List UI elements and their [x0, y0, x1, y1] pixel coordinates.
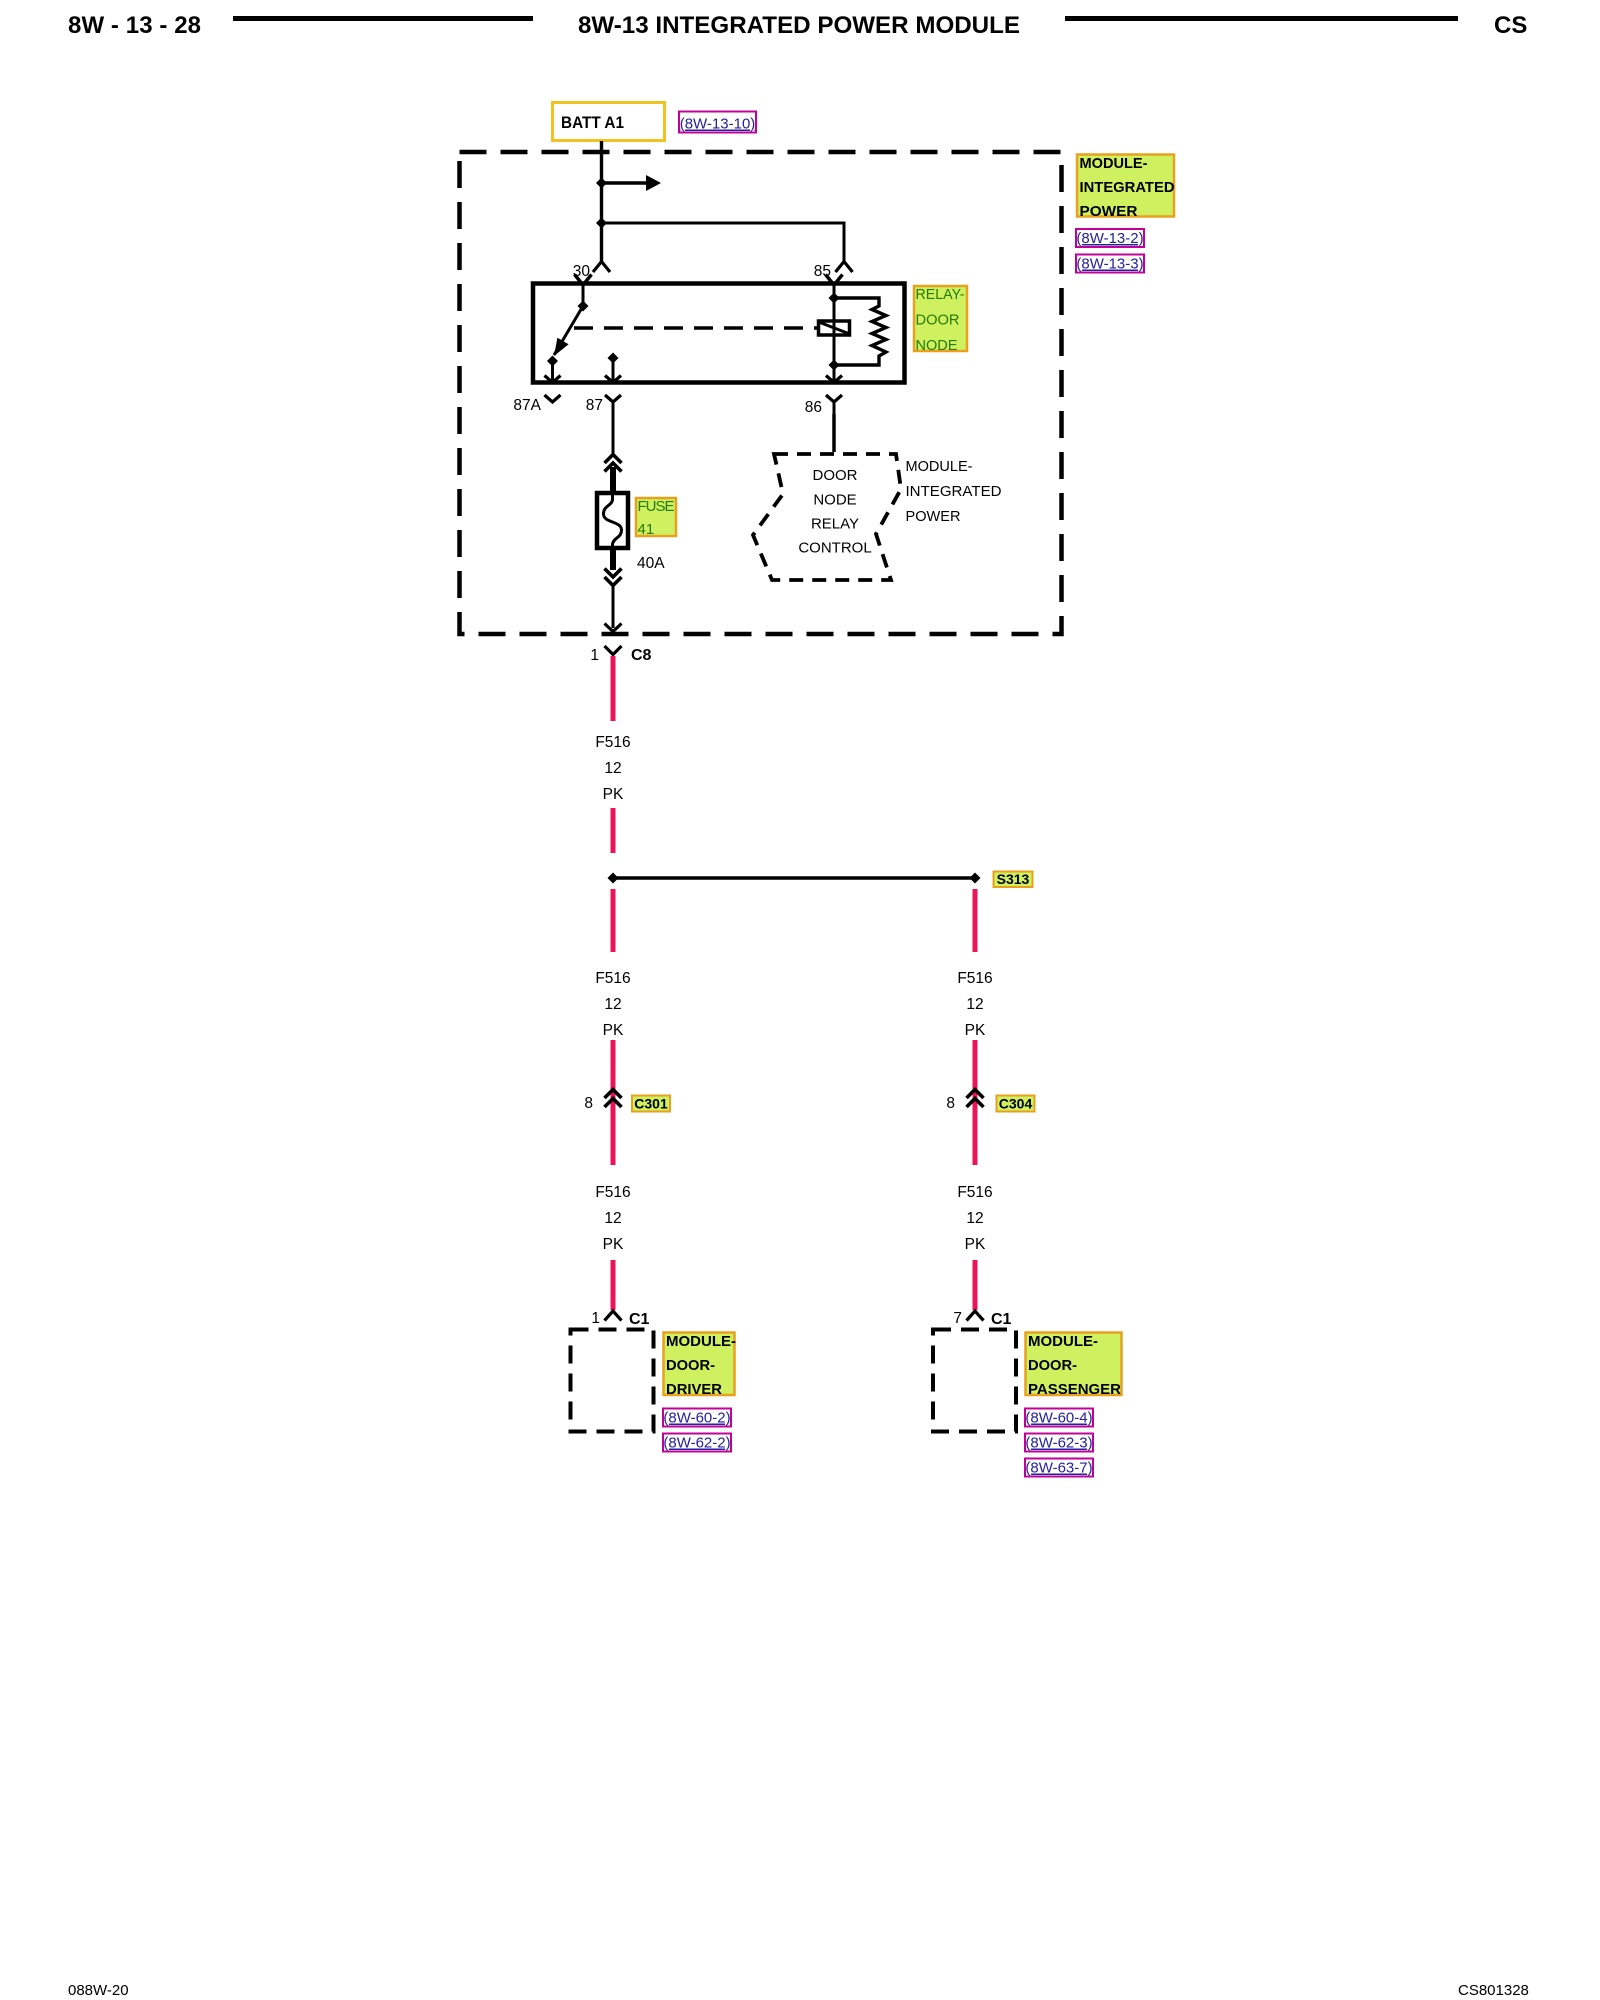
- svg-text:F516: F516: [957, 970, 992, 987]
- svg-text:CS: CS: [1494, 12, 1527, 39]
- svg-text:DRIVER: DRIVER: [666, 1381, 722, 1398]
- svg-text:PK: PK: [965, 1022, 986, 1039]
- svg-text:INTEGRATED: INTEGRATED: [1080, 179, 1175, 196]
- svg-text:F516: F516: [957, 1184, 992, 1201]
- svg-text:CONTROL: CONTROL: [798, 540, 871, 557]
- svg-text:RELAY-: RELAY-: [916, 286, 965, 303]
- svg-text:8W - 13 - 28: 8W - 13 - 28: [68, 12, 201, 39]
- svg-text:C301: C301: [634, 1096, 668, 1112]
- svg-text:C1: C1: [991, 1311, 1012, 1328]
- svg-text:(8W-63-7): (8W-63-7): [1025, 1460, 1092, 1477]
- svg-text:BATT A1: BATT A1: [561, 113, 624, 132]
- svg-text:7: 7: [953, 1310, 962, 1327]
- svg-text:088W-20: 088W-20: [68, 1982, 129, 1999]
- svg-text:FUSE: FUSE: [638, 498, 675, 515]
- svg-text:DOOR: DOOR: [813, 467, 858, 484]
- svg-text:86: 86: [805, 399, 822, 416]
- svg-text:PK: PK: [603, 786, 624, 803]
- svg-text:40A: 40A: [637, 555, 665, 572]
- svg-text:(8W-13-2): (8W-13-2): [1076, 230, 1143, 247]
- svg-text:INTEGRATED: INTEGRATED: [906, 483, 1002, 500]
- svg-text:DOOR-: DOOR-: [1028, 1357, 1077, 1374]
- svg-text:C304: C304: [999, 1096, 1033, 1112]
- svg-text:12: 12: [604, 1210, 621, 1227]
- svg-text:(8W-13-3): (8W-13-3): [1076, 256, 1143, 273]
- svg-text:F516: F516: [595, 970, 630, 987]
- svg-text:8W-13 INTEGRATED POWER MODULE: 8W-13 INTEGRATED POWER MODULE: [578, 12, 1020, 39]
- svg-text:12: 12: [604, 760, 621, 777]
- svg-text:12: 12: [966, 1210, 983, 1227]
- svg-text:87A: 87A: [513, 397, 541, 414]
- svg-text:F516: F516: [595, 1184, 630, 1201]
- svg-text:POWER: POWER: [1080, 203, 1138, 220]
- svg-text:MODULE-: MODULE-: [666, 1333, 736, 1350]
- svg-text:41: 41: [638, 521, 655, 538]
- svg-text:12: 12: [966, 996, 983, 1013]
- svg-text:PK: PK: [603, 1236, 624, 1253]
- svg-text:PK: PK: [965, 1236, 986, 1253]
- svg-text:MODULE-: MODULE-: [906, 458, 973, 475]
- svg-text:C1: C1: [629, 1311, 650, 1328]
- svg-text:(8W-13-10): (8W-13-10): [680, 116, 756, 133]
- svg-text:POWER: POWER: [906, 508, 961, 525]
- svg-text:DOOR: DOOR: [916, 312, 960, 329]
- svg-text:(8W-62-3): (8W-62-3): [1025, 1435, 1092, 1452]
- svg-text:(8W-60-2): (8W-60-2): [663, 1410, 730, 1427]
- svg-text:RELAY: RELAY: [811, 516, 859, 533]
- svg-text:PASSENGER: PASSENGER: [1028, 1381, 1121, 1398]
- svg-text:8: 8: [946, 1095, 955, 1112]
- svg-text:(8W-60-4): (8W-60-4): [1025, 1410, 1092, 1427]
- svg-text:MODULE-: MODULE-: [1080, 155, 1148, 172]
- svg-text:PK: PK: [603, 1022, 624, 1039]
- svg-text:8: 8: [584, 1095, 593, 1112]
- svg-text:12: 12: [604, 996, 621, 1013]
- svg-text:DOOR-: DOOR-: [666, 1357, 715, 1374]
- svg-text:CS801328: CS801328: [1458, 1982, 1529, 1999]
- svg-text:1: 1: [591, 1310, 600, 1327]
- svg-text:MODULE-: MODULE-: [1028, 1333, 1098, 1350]
- svg-text:87: 87: [586, 397, 603, 414]
- svg-text:(8W-62-2): (8W-62-2): [663, 1435, 730, 1452]
- svg-text:C8: C8: [631, 647, 652, 664]
- svg-text:NODE: NODE: [916, 337, 958, 354]
- svg-text:1: 1: [590, 647, 599, 664]
- svg-text:F516: F516: [595, 734, 630, 751]
- svg-text:S313: S313: [997, 871, 1030, 887]
- svg-text:NODE: NODE: [813, 492, 856, 509]
